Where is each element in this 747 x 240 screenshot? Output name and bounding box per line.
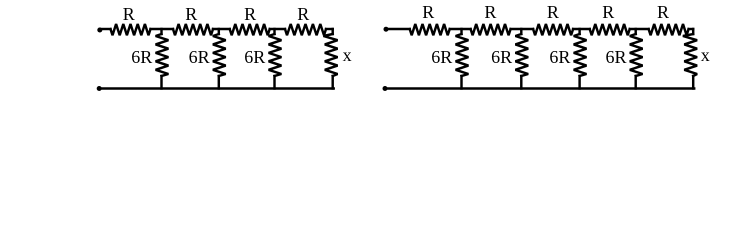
wire (junction stub from top rail at node 2, left circuit) bbox=[218, 29, 220, 34]
resistor R #4 (left circuit, series arm) bbox=[285, 24, 326, 35]
svg-text:6R: 6R bbox=[431, 47, 452, 67]
svg-text:6R: 6R bbox=[549, 47, 570, 67]
resistor R #2 (right circuit, series arm) bbox=[471, 24, 511, 35]
svg-text:x: x bbox=[701, 45, 710, 65]
wire (top rail segment 1, right circuit) bbox=[386, 28, 410, 30]
wire (top rail segment 3, right circuit) bbox=[511, 28, 533, 30]
wire (junction stub to bottom rail at node 3, left circuit) bbox=[273, 76, 275, 89]
wire (junction stub from top rail at node 3, right circuit) bbox=[578, 29, 580, 34]
svg-text:6R: 6R bbox=[131, 47, 152, 67]
wire (junction stub to bottom rail at node 3, right circuit) bbox=[578, 76, 580, 89]
wire (top-right corner stub into resistor x, left circuit) bbox=[331, 29, 333, 34]
svg-text:6R: 6R bbox=[244, 47, 265, 67]
resistor R #5 (right circuit, series arm) bbox=[649, 24, 689, 35]
wire (bottom stub of resistor x, left circuit) bbox=[331, 76, 333, 89]
wire (junction stub from top rail at node 4, right circuit) bbox=[634, 29, 636, 34]
wire (junction stub from top rail at node 2, right circuit) bbox=[520, 29, 522, 34]
wire (junction stub to bottom rail at node 2, right circuit) bbox=[520, 76, 522, 89]
svg-text:R: R bbox=[185, 4, 197, 24]
terminal dot (left circuit, bottom-left input) bbox=[97, 86, 102, 91]
wire (junction stub from top rail at node 1, left circuit) bbox=[160, 29, 162, 34]
wire (top rail segment 5, right circuit) bbox=[630, 28, 649, 30]
resistor 6R #2 (left circuit, shunt arm) bbox=[213, 34, 226, 76]
terminal dot (left circuit, top-left input) bbox=[97, 28, 102, 33]
wire (junction stub to bottom rail at node 1, right circuit) bbox=[460, 76, 462, 89]
svg-text:6R: 6R bbox=[189, 47, 210, 67]
wire (top rail segment 5, left circuit) bbox=[326, 28, 333, 30]
svg-text:R: R bbox=[422, 2, 434, 22]
resistor 6R #3 (right circuit, shunt arm) bbox=[574, 34, 587, 76]
wire (top-right corner stub into resistor x, right circuit) bbox=[692, 29, 694, 34]
wire (top rail segment 4, left circuit) bbox=[270, 28, 285, 30]
svg-text:R: R bbox=[244, 4, 256, 24]
resistor x (right circuit, terminating shunt) bbox=[683, 34, 697, 76]
wire (top rail segment 4, right circuit) bbox=[573, 28, 590, 30]
wire (top rail segment 6, right circuit) bbox=[689, 28, 694, 30]
resistor R #2 (left circuit, series arm) bbox=[173, 24, 213, 35]
resistor R #3 (left circuit, series arm) bbox=[230, 24, 270, 35]
wire (bottom stub of resistor x, right circuit) bbox=[692, 76, 694, 89]
svg-text:R: R bbox=[297, 4, 309, 24]
svg-text:x: x bbox=[343, 45, 352, 65]
resistor 6R #1 (right circuit, shunt arm) bbox=[456, 34, 469, 76]
svg-text:R: R bbox=[657, 2, 669, 22]
terminal dot (right circuit, top-left input) bbox=[384, 27, 389, 32]
resistor 6R #4 (right circuit, shunt arm) bbox=[630, 34, 643, 76]
wire (junction stub from top rail at node 1, right circuit) bbox=[460, 29, 462, 34]
resistor R #1 (left circuit, series arm) bbox=[111, 24, 151, 35]
svg-text:R: R bbox=[484, 2, 496, 22]
svg-text:R: R bbox=[547, 2, 559, 22]
resistor 6R #1 (left circuit, shunt arm) bbox=[156, 34, 169, 76]
svg-text:6R: 6R bbox=[605, 47, 626, 67]
wire (junction stub to bottom rail at node 4, right circuit) bbox=[634, 76, 636, 89]
svg-text:6R: 6R bbox=[491, 47, 512, 67]
wire (junction stub to bottom rail at node 1, left circuit) bbox=[160, 76, 162, 89]
wire (top rail segment 3, left circuit) bbox=[213, 28, 230, 30]
svg-text:R: R bbox=[602, 2, 614, 22]
resistor x (left circuit, terminating shunt) bbox=[323, 34, 337, 76]
wire (top rail segment 2, right circuit) bbox=[450, 28, 471, 30]
wire (junction stub from top rail at node 3, left circuit) bbox=[273, 29, 275, 34]
wire (bottom rail, left circuit) bbox=[99, 87, 334, 89]
wire (junction stub to bottom rail at node 2, left circuit) bbox=[218, 76, 220, 89]
resistor R #4 (right circuit, series arm) bbox=[590, 24, 630, 35]
resistor 6R #3 (left circuit, shunt arm) bbox=[269, 34, 282, 76]
resistor 6R #2 (right circuit, shunt arm) bbox=[515, 34, 528, 76]
wire (top rail segment 1, left circuit) bbox=[100, 28, 111, 30]
resistor R #3 (right circuit, series arm) bbox=[533, 24, 573, 35]
svg-text:R: R bbox=[123, 4, 135, 24]
resistor R #1 (right circuit, series arm) bbox=[410, 24, 450, 35]
wire (bottom rail, right circuit) bbox=[385, 87, 694, 89]
wire (top rail segment 2, left circuit) bbox=[151, 28, 174, 30]
terminal dot (right circuit, bottom-left input) bbox=[383, 86, 388, 91]
